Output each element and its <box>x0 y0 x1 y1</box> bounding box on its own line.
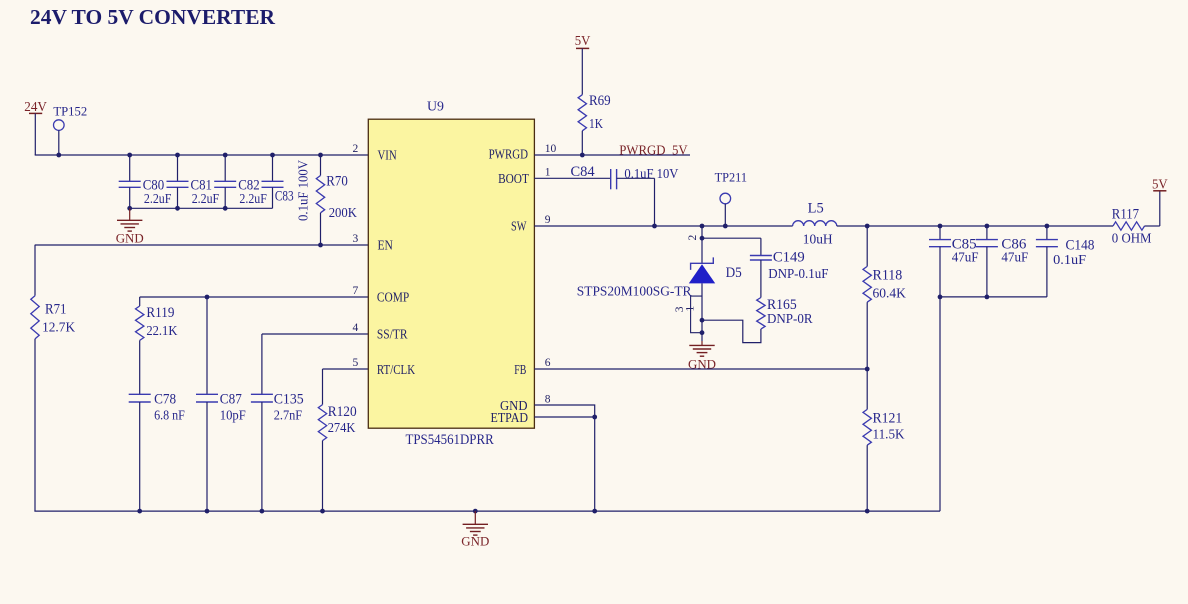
svg-text:24V TO 5V CONVERTER: 24V TO 5V CONVERTER <box>30 5 276 29</box>
resistor R69 <box>581 48 583 94</box>
ground GND diode <box>701 341 703 345</box>
svg-text:C82: C82 <box>238 177 260 193</box>
diode D5 branch wire <box>701 226 703 263</box>
node output junctions <box>865 224 870 229</box>
resistor R71 <box>31 296 39 339</box>
svg-text:ETPAD: ETPAD <box>491 411 529 426</box>
svg-text:5: 5 <box>352 357 358 369</box>
capacitor C87 <box>206 297 208 394</box>
svg-text:3: 3 <box>352 233 358 245</box>
resistor R118 <box>866 226 868 266</box>
wire GND pin 8 <box>534 405 594 417</box>
node FB junction <box>865 367 870 372</box>
wire left rail upper <box>34 245 36 296</box>
svg-text:TPS54561DPRR: TPS54561DPRR <box>406 432 494 448</box>
wire output cap ground rail <box>940 296 1047 298</box>
svg-text:U9: U9 <box>427 99 444 114</box>
wire 5V output stem <box>1159 191 1161 226</box>
node D5 top junction <box>700 236 705 241</box>
capacitor C82 <box>224 155 226 181</box>
svg-text:0 OHM: 0 OHM <box>1112 232 1152 247</box>
capacitor C80 <box>129 155 131 181</box>
wire TP152 stem <box>58 130 60 155</box>
capacitor C84 <box>610 169 612 189</box>
svg-text:2.2uF: 2.2uF <box>239 192 267 207</box>
svg-text:GND: GND <box>116 231 144 246</box>
node SW junctions <box>652 224 657 229</box>
svg-text:C87: C87 <box>220 392 242 408</box>
resistor R120 <box>322 369 324 405</box>
svg-text:5V: 5V <box>575 34 591 49</box>
svg-text:R71: R71 <box>45 302 67 318</box>
svg-text:4: 4 <box>352 322 358 334</box>
svg-text:0.1uF 100V: 0.1uF 100V <box>296 160 311 221</box>
svg-text:C148: C148 <box>1066 237 1095 253</box>
svg-text:PWRGD 5V: PWRGD 5V <box>619 143 687 158</box>
capacitor C135 <box>261 334 263 394</box>
wire output net <box>837 225 1113 227</box>
svg-text:DNP-0R: DNP-0R <box>767 312 813 327</box>
wire PWRGD net <box>534 154 690 156</box>
svg-text:11.5K: 11.5K <box>873 428 905 443</box>
capacitor C86 <box>986 226 988 240</box>
svg-text:EN: EN <box>378 239 393 254</box>
svg-text:L5: L5 <box>808 200 824 216</box>
wire ETPAD to ground rail <box>594 417 596 511</box>
wire BOOT to SW <box>617 177 655 179</box>
wire FB net <box>534 368 867 370</box>
capacitor C81 <box>177 155 179 181</box>
resistor R117 <box>1113 222 1145 230</box>
svg-text:C84: C84 <box>571 164 596 180</box>
svg-text:22.1K: 22.1K <box>146 324 177 339</box>
test point TP211 <box>720 193 731 204</box>
svg-text:1K: 1K <box>589 117 603 132</box>
wire R165 return to D5 anode <box>702 320 761 342</box>
svg-text:SW: SW <box>511 220 527 235</box>
wire ETPAD pin <box>534 416 594 418</box>
wire TP211 stem <box>724 204 726 226</box>
svg-text:0.1uF: 0.1uF <box>1053 253 1086 268</box>
wire BOOT net <box>534 177 610 179</box>
node bottom rail junctions <box>137 509 142 514</box>
svg-text:R69: R69 <box>589 93 611 109</box>
wire SW net <box>534 225 792 227</box>
svg-text:DNP-0.1uF: DNP-0.1uF <box>768 267 828 282</box>
svg-text:12.7K: 12.7K <box>42 321 75 336</box>
svg-text:1: 1 <box>545 167 551 179</box>
capacitor C149 <box>760 238 762 255</box>
svg-text:10uH: 10uH <box>803 233 833 248</box>
svg-text:C80: C80 <box>143 177 165 193</box>
node cap rail junctions <box>127 206 132 211</box>
svg-text:R120: R120 <box>328 404 357 420</box>
wire cap ground rail <box>130 207 273 209</box>
svg-text:C149: C149 <box>773 249 805 265</box>
resistor R119 <box>139 297 141 306</box>
node ETPAD junction <box>592 415 597 420</box>
resistor R165 <box>757 298 765 330</box>
svg-text:7: 7 <box>352 285 358 297</box>
svg-text:6.8 nF: 6.8 nF <box>154 408 185 423</box>
svg-text:2: 2 <box>687 234 699 240</box>
wire bottom ground rail <box>34 510 940 512</box>
svg-text:FB: FB <box>514 363 526 378</box>
wire right rail down <box>939 297 941 511</box>
svg-text:PWRGD: PWRGD <box>489 147 528 162</box>
resistor R121 <box>866 369 868 409</box>
ground GND input caps <box>129 208 131 220</box>
svg-text:C78: C78 <box>154 392 176 408</box>
wire VIN net <box>35 154 369 156</box>
svg-text:8: 8 <box>545 393 551 405</box>
diode D5 <box>691 257 714 270</box>
node R69-PWRGD junction <box>580 153 585 158</box>
svg-text:1: 1 <box>685 305 697 311</box>
wire RT/CLK net <box>323 368 369 370</box>
capacitor C83 <box>272 155 274 181</box>
wire COMP net <box>140 296 369 298</box>
inductor L5 <box>793 221 837 226</box>
wire D5 anode lead <box>701 283 703 341</box>
wire left rail lower <box>34 339 36 511</box>
wire EN net <box>35 244 369 246</box>
svg-text:GND: GND <box>461 535 489 549</box>
capacitor C78 <box>129 393 151 395</box>
node D5 anode junctions <box>700 318 705 323</box>
svg-text:9: 9 <box>545 214 551 226</box>
svg-text:C135: C135 <box>274 392 304 408</box>
node COMP-C87 junction <box>205 295 210 300</box>
capacitor C148 <box>1046 226 1048 240</box>
svg-text:60.4K: 60.4K <box>873 286 906 301</box>
node VIN junctions <box>56 153 61 158</box>
svg-text:47uF: 47uF <box>952 251 979 266</box>
svg-text:COMP: COMP <box>377 291 410 306</box>
svg-text:47uF: 47uF <box>1001 251 1028 266</box>
svg-text:RT/CLK: RT/CLK <box>377 363 415 378</box>
svg-text:C81: C81 <box>191 177 213 193</box>
ground GND bottom rail <box>474 511 476 524</box>
svg-text:R117: R117 <box>1112 206 1140 222</box>
svg-text:R119: R119 <box>146 305 174 321</box>
svg-text:2.7nF: 2.7nF <box>274 408 303 423</box>
svg-text:R118: R118 <box>873 267 903 283</box>
svg-text:2.2uF: 2.2uF <box>144 192 172 207</box>
svg-text:R121: R121 <box>873 410 903 426</box>
svg-text:10: 10 <box>545 143 557 155</box>
svg-text:TP152: TP152 <box>53 104 87 119</box>
svg-text:274K: 274K <box>328 421 356 436</box>
wire C149 branch top <box>702 237 761 239</box>
node R70-EN junction <box>318 243 323 248</box>
svg-text:SS/TR: SS/TR <box>377 328 408 343</box>
wire SS/TR net <box>262 333 368 335</box>
svg-text:TP211: TP211 <box>715 170 747 185</box>
wire 24V stem <box>34 113 36 155</box>
svg-text:C83: C83 <box>275 189 294 205</box>
svg-text:6: 6 <box>545 357 551 369</box>
svg-text:2: 2 <box>352 143 358 155</box>
svg-text:2.2uF: 2.2uF <box>192 192 220 207</box>
resistor R70 <box>320 155 322 176</box>
svg-text:BOOT: BOOT <box>498 172 529 187</box>
svg-text:VIN: VIN <box>378 149 397 164</box>
diode D5 pin box <box>691 296 702 333</box>
svg-text:STPS20M100SG-TR: STPS20M100SG-TR <box>577 285 692 300</box>
op-amp U9 TPS54561DPRR body <box>368 119 534 428</box>
svg-text:R165: R165 <box>767 297 797 313</box>
test point TP152 <box>54 120 65 131</box>
svg-text:D5: D5 <box>726 265 742 281</box>
svg-text:200K: 200K <box>329 206 357 221</box>
svg-text:0.1uF 10V: 0.1uF 10V <box>624 167 678 182</box>
svg-text:R70: R70 <box>326 174 348 190</box>
node cap ground junctions <box>938 295 943 300</box>
capacitor C85 <box>939 226 941 240</box>
svg-text:10pF: 10pF <box>220 408 246 423</box>
